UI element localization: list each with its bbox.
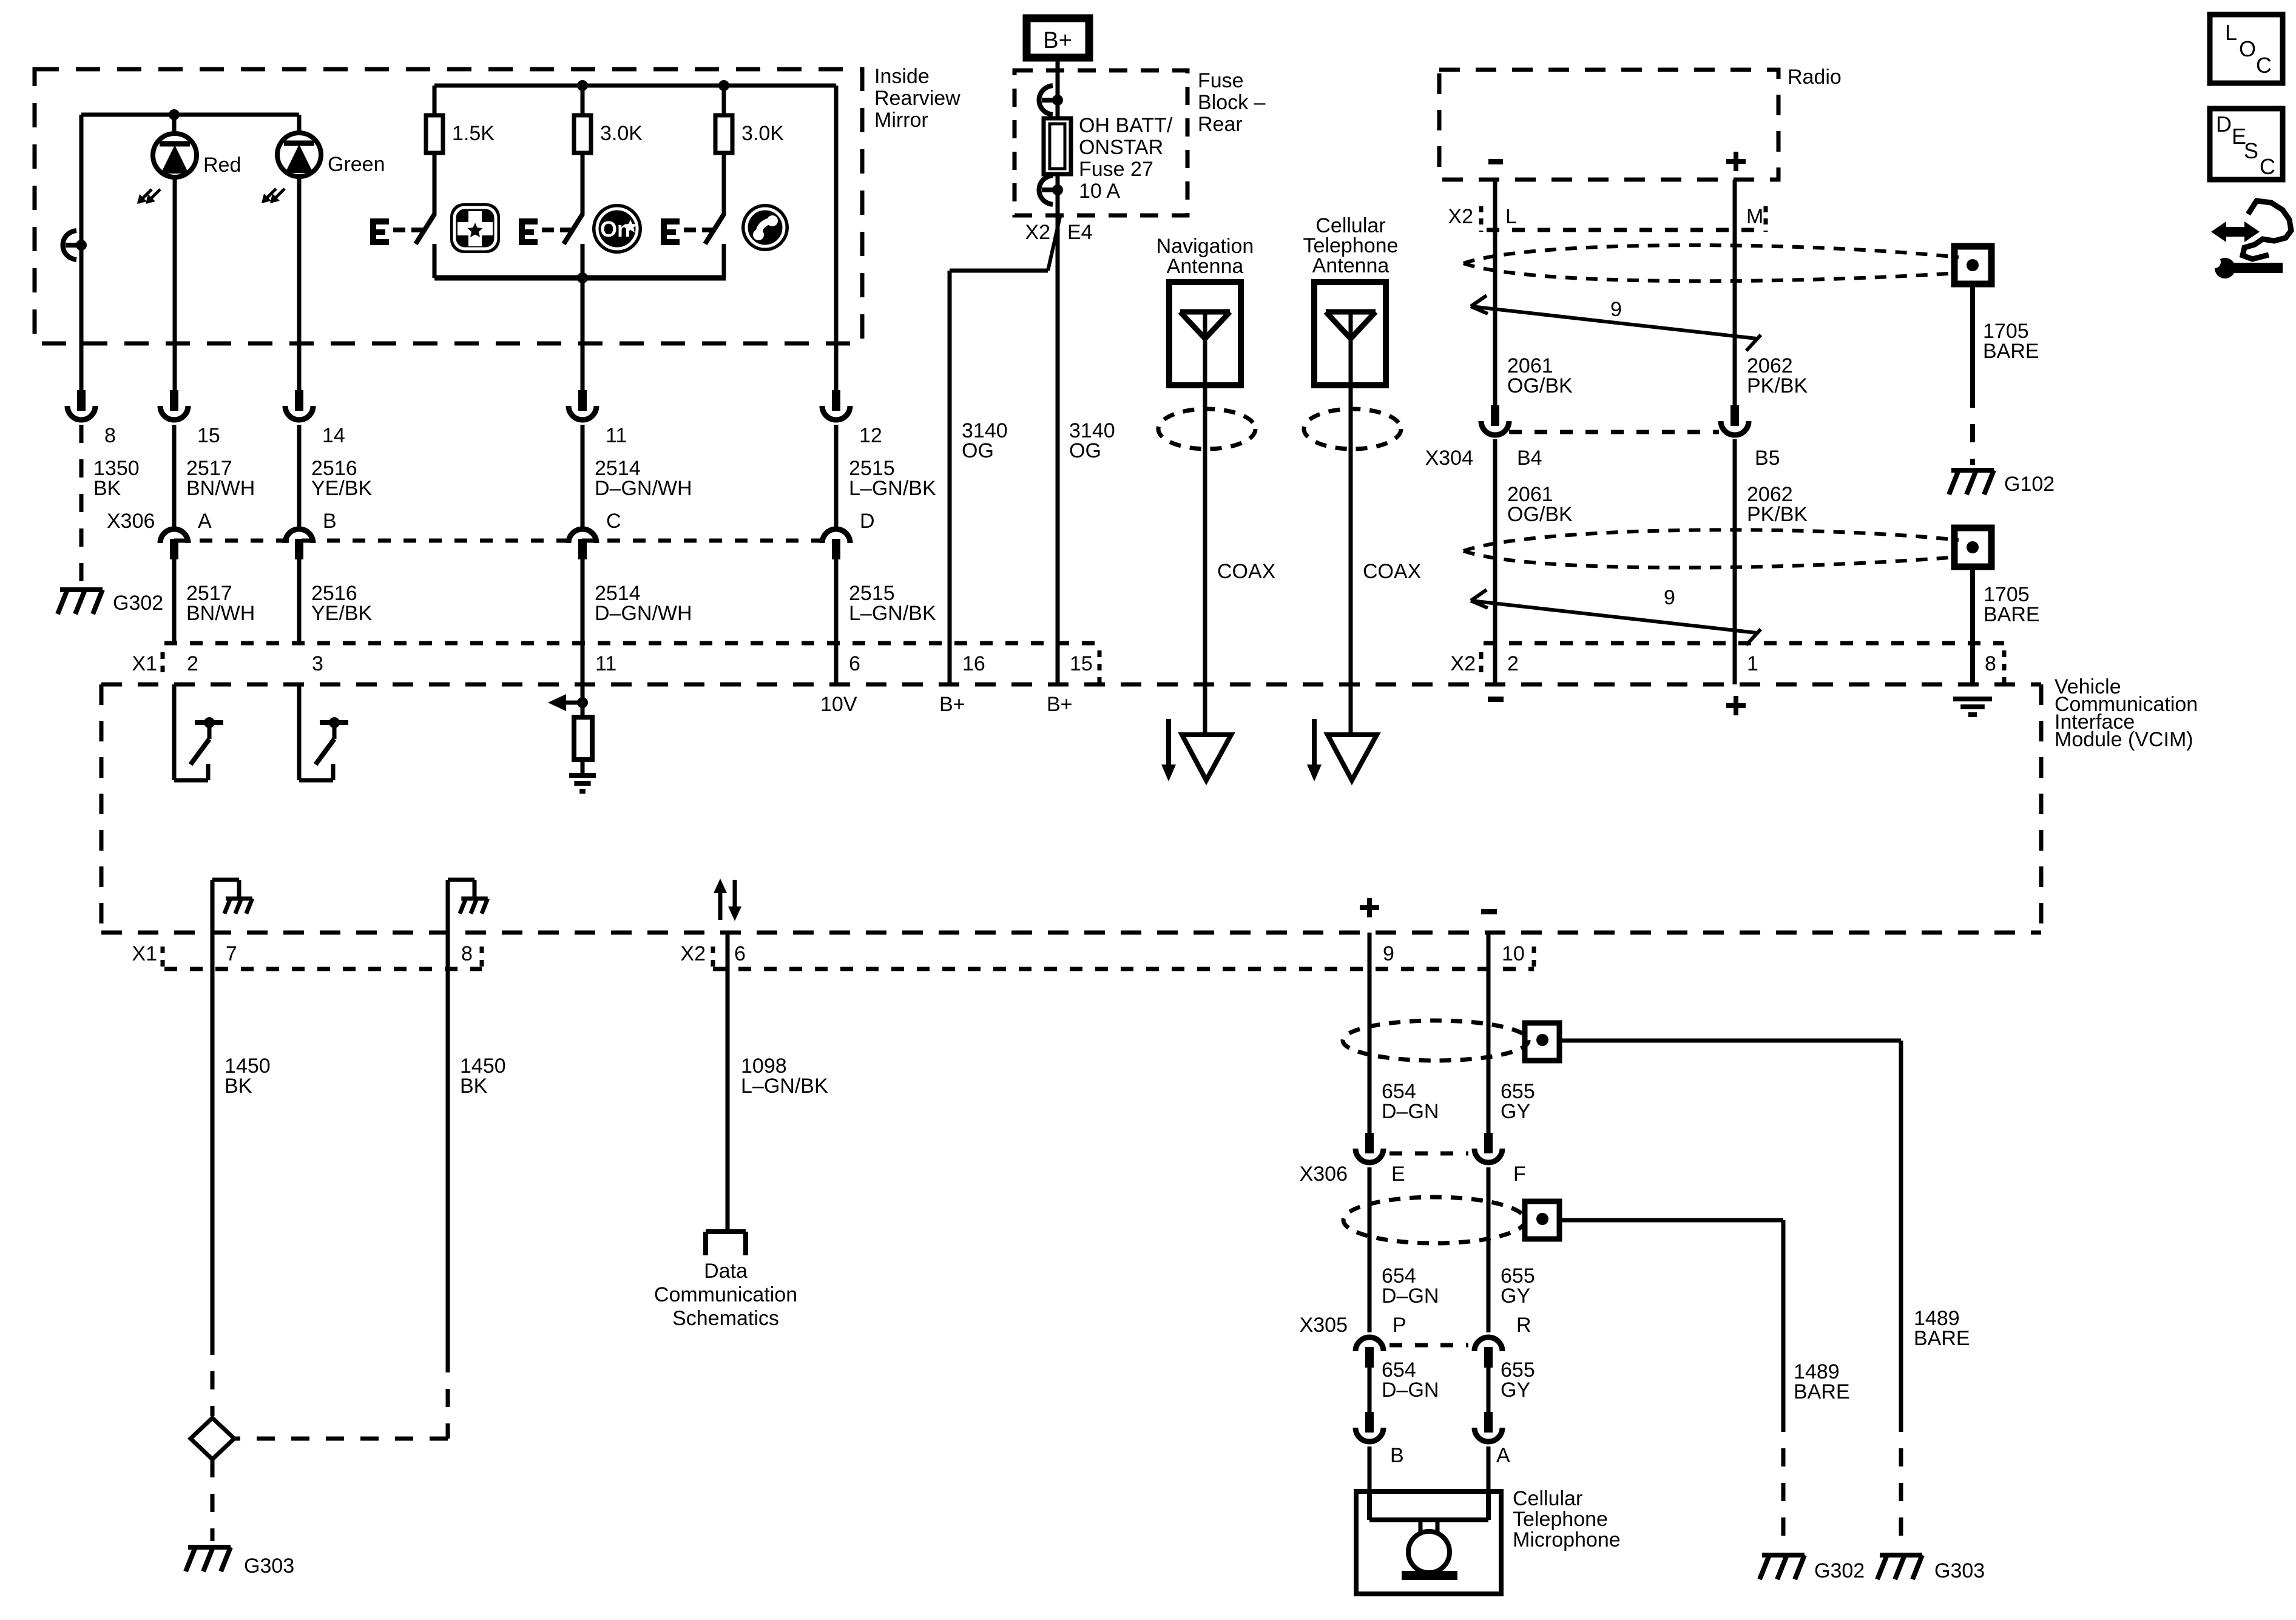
svg-text:ONSTAR: ONSTAR xyxy=(1079,136,1163,159)
svg-text:Cellular: Cellular xyxy=(1513,1487,1582,1510)
svg-text:X2: X2 xyxy=(1025,221,1050,244)
svg-text:Communication: Communication xyxy=(654,1283,797,1306)
svg-text:GY: GY xyxy=(1501,1100,1530,1123)
svg-text:F: F xyxy=(1513,1163,1526,1186)
svg-text:C: C xyxy=(2256,53,2272,78)
svg-text:L–GN/BK: L–GN/BK xyxy=(849,477,936,500)
svg-text:B+: B+ xyxy=(1043,28,1072,53)
svg-text:Module (VCIM): Module (VCIM) xyxy=(2055,728,2193,751)
svg-text:X2: X2 xyxy=(1448,205,1473,228)
svg-text:15: 15 xyxy=(197,424,220,447)
svg-text:2: 2 xyxy=(1507,652,1519,675)
svg-text:16: 16 xyxy=(962,652,985,675)
svg-text:3: 3 xyxy=(312,652,323,675)
svg-text:G302: G302 xyxy=(1814,1559,1865,1582)
svg-text:15: 15 xyxy=(1070,652,1093,675)
svg-text:B: B xyxy=(1390,1444,1404,1467)
svg-text:BN/WH: BN/WH xyxy=(186,477,255,500)
svg-text:8: 8 xyxy=(461,942,473,965)
svg-text:X304: X304 xyxy=(1425,447,1473,470)
svg-text:YE/BK: YE/BK xyxy=(311,477,372,500)
svg-text:D: D xyxy=(860,510,875,533)
svg-text:BN/WH: BN/WH xyxy=(186,602,255,625)
svg-text:Microphone: Microphone xyxy=(1513,1528,1621,1551)
svg-text:COAX: COAX xyxy=(1363,560,1421,583)
svg-text:Green: Green xyxy=(328,153,385,176)
svg-text:L–GN/BK: L–GN/BK xyxy=(849,602,936,625)
svg-text:X1: X1 xyxy=(132,652,157,675)
svg-text:Data: Data xyxy=(704,1260,748,1283)
svg-text:X305: X305 xyxy=(1300,1314,1348,1337)
svg-text:P: P xyxy=(1393,1314,1406,1337)
svg-text:Red: Red xyxy=(203,154,241,177)
svg-text:G102: G102 xyxy=(2004,473,2055,496)
svg-text:C: C xyxy=(2260,154,2275,179)
svg-text:R: R xyxy=(1516,1314,1531,1337)
svg-text:D–GN/WH: D–GN/WH xyxy=(595,477,692,500)
svg-text:6: 6 xyxy=(849,652,860,675)
svg-text:G302: G302 xyxy=(113,592,163,615)
svg-text:9: 9 xyxy=(1383,942,1394,965)
svg-text:PK/BK: PK/BK xyxy=(1747,503,1808,526)
svg-text:X1: X1 xyxy=(132,942,157,965)
svg-text:S: S xyxy=(2244,138,2258,163)
svg-text:B+: B+ xyxy=(1047,693,1073,716)
svg-text:Mirror: Mirror xyxy=(874,109,928,132)
svg-text:L: L xyxy=(2225,20,2237,45)
svg-text:BK: BK xyxy=(225,1075,252,1098)
svg-text:L–GN/BK: L–GN/BK xyxy=(741,1075,828,1098)
svg-text:A: A xyxy=(1496,1444,1510,1467)
svg-text:OG: OG xyxy=(1069,439,1101,462)
svg-text:Fuse 27: Fuse 27 xyxy=(1079,158,1153,181)
svg-text:On: On xyxy=(600,217,630,241)
svg-text:12: 12 xyxy=(859,424,882,447)
svg-text:BARE: BARE xyxy=(1794,1380,1850,1403)
svg-text:8: 8 xyxy=(104,424,116,447)
svg-text:GY: GY xyxy=(1501,1284,1530,1308)
svg-text:BK: BK xyxy=(460,1075,488,1098)
svg-text:B4: B4 xyxy=(1517,447,1542,470)
svg-text:3.0K: 3.0K xyxy=(741,122,784,145)
svg-text:D–GN: D–GN xyxy=(1382,1100,1439,1123)
svg-text:Rear: Rear xyxy=(1198,113,1243,136)
svg-text:Rearview: Rearview xyxy=(874,87,961,110)
svg-text:Telephone: Telephone xyxy=(1513,1508,1608,1531)
svg-text:L: L xyxy=(1505,205,1517,228)
svg-text:14: 14 xyxy=(322,424,345,447)
svg-text:G303: G303 xyxy=(1934,1559,1985,1582)
svg-text:D–GN: D–GN xyxy=(1382,1379,1439,1402)
svg-text:9: 9 xyxy=(1610,298,1622,321)
svg-text:OH BATT/: OH BATT/ xyxy=(1079,114,1173,137)
svg-text:M: M xyxy=(1746,205,1763,228)
svg-text:YE/BK: YE/BK xyxy=(311,602,372,625)
svg-text:Antenna: Antenna xyxy=(1167,255,1244,278)
svg-text:Antenna: Antenna xyxy=(1312,254,1389,277)
svg-text:D: D xyxy=(2216,112,2232,137)
svg-text:D–GN: D–GN xyxy=(1382,1284,1439,1308)
svg-text:O: O xyxy=(2239,36,2256,61)
svg-text:3.0K: 3.0K xyxy=(600,122,643,145)
svg-text:X2: X2 xyxy=(680,942,706,965)
svg-text:B: B xyxy=(323,510,337,533)
svg-text:10 A: 10 A xyxy=(1079,180,1120,203)
svg-text:D–GN/WH: D–GN/WH xyxy=(595,602,692,625)
svg-text:E: E xyxy=(1391,1163,1405,1186)
svg-text:GY: GY xyxy=(1501,1379,1530,1402)
svg-text:X306: X306 xyxy=(107,510,155,533)
svg-text:11: 11 xyxy=(606,424,627,447)
svg-text:6: 6 xyxy=(734,942,746,965)
svg-text:BARE: BARE xyxy=(1983,340,2039,363)
svg-text:COAX: COAX xyxy=(1217,560,1275,583)
svg-text:BARE: BARE xyxy=(1984,603,2040,626)
svg-text:Inside: Inside xyxy=(874,65,930,88)
svg-text:Schematics: Schematics xyxy=(672,1307,779,1330)
svg-text:1.5K: 1.5K xyxy=(452,122,495,145)
svg-text:PK/BK: PK/BK xyxy=(1747,374,1808,397)
svg-text:A: A xyxy=(198,510,212,533)
svg-text:9: 9 xyxy=(1664,586,1675,609)
svg-text:Fuse: Fuse xyxy=(1198,69,1244,92)
svg-text:2: 2 xyxy=(187,652,198,675)
svg-text:8: 8 xyxy=(1985,652,1996,675)
svg-text:11: 11 xyxy=(595,652,616,675)
svg-text:X306: X306 xyxy=(1300,1163,1348,1186)
svg-text:X2: X2 xyxy=(1450,652,1476,675)
svg-text:B5: B5 xyxy=(1755,447,1780,470)
svg-text:Block –: Block – xyxy=(1198,91,1266,114)
svg-text:BK: BK xyxy=(93,477,121,500)
svg-text:1: 1 xyxy=(1747,652,1758,675)
svg-text:BARE: BARE xyxy=(1914,1327,1970,1350)
svg-text:E4: E4 xyxy=(1067,221,1093,244)
svg-text:B+: B+ xyxy=(939,693,965,716)
svg-text:OG: OG xyxy=(962,439,994,462)
svg-text:OG/BK: OG/BK xyxy=(1507,503,1573,526)
svg-text:7: 7 xyxy=(226,942,237,965)
svg-text:G303: G303 xyxy=(244,1554,294,1578)
svg-text:10: 10 xyxy=(1502,942,1525,965)
svg-text:C: C xyxy=(606,510,621,533)
svg-text:OG/BK: OG/BK xyxy=(1507,374,1573,397)
svg-text:Radio: Radio xyxy=(1788,66,1842,89)
svg-text:10V: 10V xyxy=(820,693,857,716)
